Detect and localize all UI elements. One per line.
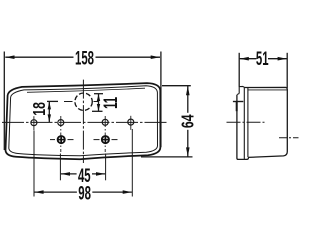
svg-text:98: 98 (78, 184, 91, 205)
svg-text:64: 64 (178, 114, 198, 128)
svg-text:11: 11 (101, 97, 122, 109)
svg-text:51: 51 (256, 49, 269, 70)
svg-text:158: 158 (75, 49, 94, 70)
svg-text:18: 18 (30, 102, 50, 116)
